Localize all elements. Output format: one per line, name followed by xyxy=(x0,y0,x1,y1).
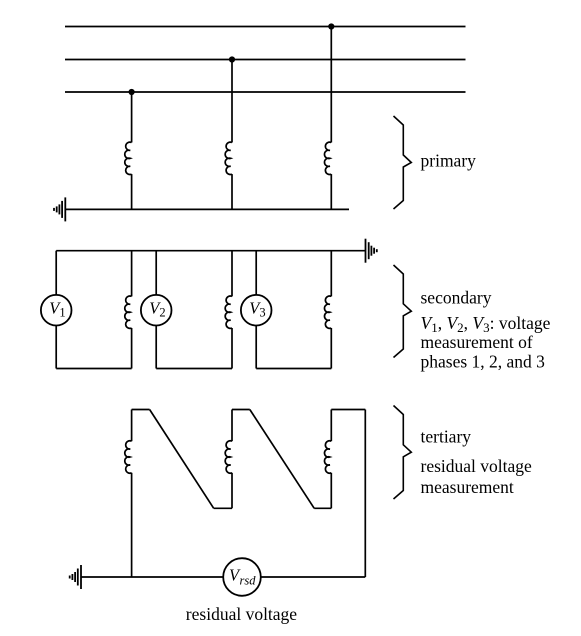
wire tertiary winding 3 upper xyxy=(330,410,332,442)
inductor tertiary winding 1 xyxy=(125,441,132,473)
svg-text:residual voltage: residual voltage xyxy=(421,456,533,476)
wire secondary loop 3 bottom xyxy=(256,368,331,370)
wire secondary loop 3 right upper xyxy=(330,251,332,297)
inductor tertiary winding 2 xyxy=(225,441,232,473)
wire secondary loop 3 left lower xyxy=(255,326,257,369)
voltmeter V1 xyxy=(41,295,72,326)
svg-text:measurement of: measurement of xyxy=(421,332,533,352)
wire tertiary top stub 1 xyxy=(132,409,150,411)
wire tertiary right return xyxy=(364,410,366,578)
wire tertiary diagonal 1 xyxy=(150,410,214,509)
ground (tertiary) xyxy=(70,565,81,589)
inductor secondary winding 3 xyxy=(324,296,331,328)
wire primary drop 2 (lower) xyxy=(231,174,233,209)
svg-text:measurement: measurement xyxy=(421,477,514,497)
junction dot phase 3 tap xyxy=(129,89,135,95)
svg-text:phases 1, 2, and 3: phases 1, 2, and 3 xyxy=(421,352,546,372)
wire tertiary winding 2 lower xyxy=(231,473,233,509)
inductor primary winding 2 xyxy=(225,142,232,174)
wire tertiary top stub 3 xyxy=(331,409,365,411)
wire primary neutral xyxy=(65,208,349,210)
wire secondary loop 2 bottom xyxy=(156,368,232,370)
inductor tertiary winding 3 xyxy=(324,441,331,473)
wire secondary loop 1 left upper xyxy=(55,251,57,295)
wire secondary loop 3 left upper xyxy=(255,251,257,295)
wire primary drop 3 (lower) xyxy=(330,174,332,209)
svg-text:2: 2 xyxy=(159,306,165,320)
svg-text:secondary: secondary xyxy=(421,288,492,308)
svg-text:3: 3 xyxy=(259,306,265,320)
voltmeter V3 xyxy=(241,295,272,326)
wire tertiary bottom left xyxy=(81,576,223,578)
inductor secondary winding 1 xyxy=(125,296,132,328)
svg-text:primary: primary xyxy=(421,151,477,171)
bus line phase 1 xyxy=(65,26,466,28)
ground (primary neutral) xyxy=(54,197,65,221)
wire secondary loop 2 left upper xyxy=(155,251,157,295)
wire tertiary top stub 2 xyxy=(232,409,250,411)
bus line phase 2 xyxy=(65,59,466,61)
wire secondary loop 2 right upper xyxy=(231,251,233,297)
brace secondary xyxy=(394,265,412,358)
svg-text:residual voltage: residual voltage xyxy=(186,604,298,624)
wire secondary loop 1 right upper xyxy=(131,251,133,297)
wire tertiary bottom stub 2 xyxy=(314,507,331,509)
inductor primary winding 1 xyxy=(125,142,132,174)
brace tertiary xyxy=(394,406,412,500)
wire primary drop 3 (upper) xyxy=(330,27,332,143)
wire primary drop 1 (lower) xyxy=(131,174,133,209)
svg-text:tertiary: tertiary xyxy=(421,427,472,447)
wire primary drop 1 (upper) xyxy=(131,92,133,143)
wire secondary loop 3 right lower xyxy=(330,328,332,369)
wire secondary loop 1 left lower xyxy=(55,326,57,369)
wire tertiary bottom right xyxy=(261,576,366,578)
wire tertiary winding 2 upper xyxy=(231,410,233,442)
wire tertiary winding 1 lower xyxy=(131,473,133,577)
wire secondary loop 1 bottom xyxy=(56,368,131,370)
wire secondary loop 2 right lower xyxy=(231,328,233,369)
voltmeter Vrsd xyxy=(223,558,261,596)
wire secondary loop 2 left lower xyxy=(155,326,157,369)
wire secondary bus xyxy=(56,250,365,252)
junction dot phase 2 tap xyxy=(229,56,235,62)
svg-text:rsd: rsd xyxy=(240,574,257,588)
wire tertiary bottom stub 1 xyxy=(214,507,232,509)
wire primary drop 2 (upper) xyxy=(231,60,233,143)
voltmeter V2 xyxy=(141,295,172,326)
wire tertiary winding 3 lower xyxy=(330,473,332,509)
svg-text:1: 1 xyxy=(59,306,65,320)
inductor secondary winding 2 xyxy=(225,296,232,328)
wire tertiary diagonal 2 xyxy=(250,410,314,509)
ground (secondary) xyxy=(366,239,377,263)
inductor primary winding 3 xyxy=(324,142,331,174)
wire tertiary winding 1 upper xyxy=(131,410,133,442)
junction dot phase 1 tap xyxy=(328,23,334,29)
wire secondary loop 1 right lower xyxy=(131,328,133,369)
bus line phase 3 xyxy=(65,91,466,93)
brace primary xyxy=(394,116,412,209)
